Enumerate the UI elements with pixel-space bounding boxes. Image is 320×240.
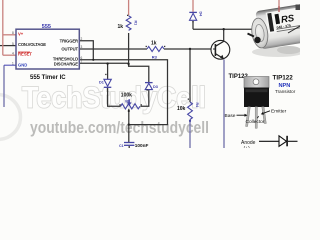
svg-text:C1: C1 — [119, 144, 124, 148]
svg-text:555 Timer IC: 555 Timer IC — [30, 75, 66, 81]
svg-text:4: 4 — [12, 51, 14, 55]
svg-text:8: 8 — [12, 31, 14, 35]
svg-text:OUTPUT: OUTPUT — [61, 47, 78, 52]
svg-text:R1: R1 — [134, 21, 138, 26]
svg-text:10k: 10k — [177, 106, 186, 112]
svg-text:TRIGGER: TRIGGER — [60, 38, 78, 43]
svg-text:D1: D1 — [99, 81, 104, 85]
svg-text:TIP122: TIP122 — [273, 75, 294, 82]
svg-text:100nF: 100nF — [135, 143, 149, 148]
svg-text:GND: GND — [18, 62, 27, 67]
svg-text:D4: D4 — [199, 12, 203, 17]
svg-text:DISCHARGE: DISCHARGE — [54, 62, 79, 67]
svg-text:R3: R3 — [152, 55, 158, 60]
svg-text:Transistor: Transistor — [275, 89, 296, 94]
svg-text:D3: D3 — [153, 85, 158, 89]
svg-text:R4: R4 — [195, 103, 199, 108]
svg-text:youtube.com/techstudycell: youtube.com/techstudycell — [30, 119, 209, 137]
svg-text:CON.VOLTAGE: CON.VOLTAGE — [18, 42, 46, 47]
svg-text:V+: V+ — [18, 31, 24, 36]
svg-text:RESET: RESET — [18, 52, 32, 57]
svg-text:555: 555 — [42, 24, 51, 30]
svg-text:1: 1 — [12, 61, 14, 65]
svg-text:100k: 100k — [121, 92, 132, 98]
svg-text:1k: 1k — [118, 24, 124, 30]
svg-text:5: 5 — [12, 42, 14, 46]
svg-text:Base: Base — [225, 113, 236, 119]
svg-text:1k: 1k — [151, 40, 157, 46]
svg-text:3: 3 — [81, 45, 83, 49]
svg-text:(+): (+) — [244, 146, 251, 148]
svg-text:Emitter: Emitter — [271, 109, 287, 115]
svg-text:Collector: Collector — [246, 119, 265, 125]
svg-text:2: 2 — [81, 37, 83, 41]
svg-text:7: 7 — [81, 60, 83, 64]
